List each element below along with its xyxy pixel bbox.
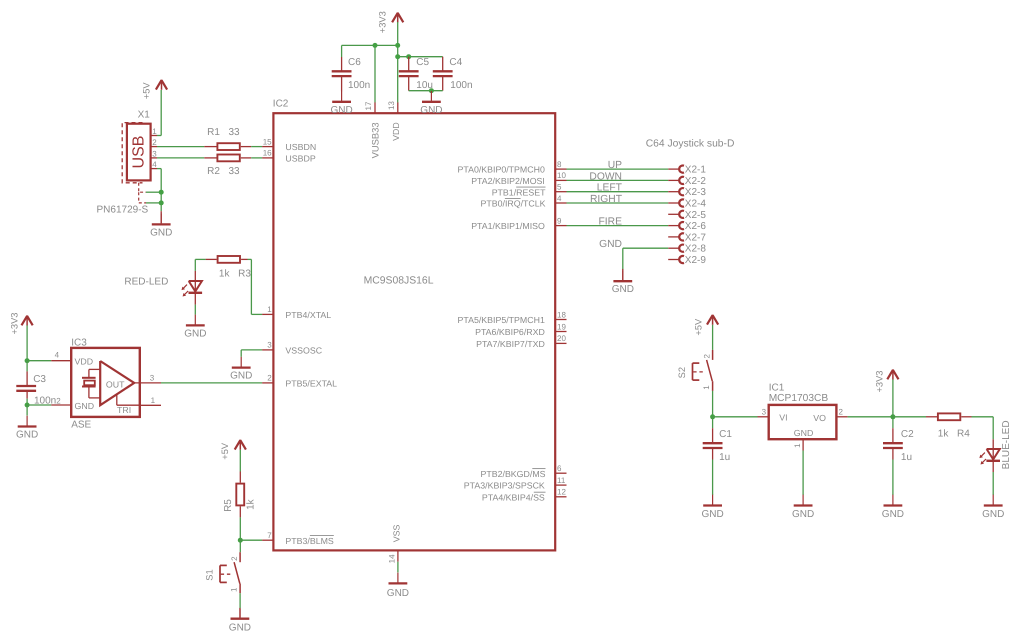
wire X1 pin1 to +5V xyxy=(157,90,161,136)
wire VO to junction xyxy=(848,416,893,418)
svg-text:GND: GND xyxy=(184,328,206,339)
IC2 pin 20 PTA7/KBIP7/TXD stub xyxy=(555,342,566,344)
X1 pin 2 stub xyxy=(151,146,157,148)
supply symbol +3V3 xyxy=(392,13,403,23)
wire VSSOSC to gnd xyxy=(241,350,262,357)
IC2 pin 15 USBDN stub xyxy=(262,146,273,148)
svg-text:GND: GND xyxy=(387,588,409,599)
svg-text:3: 3 xyxy=(267,341,272,350)
svg-text:1k: 1k xyxy=(938,429,950,440)
X2 gnd stub xyxy=(622,269,624,280)
svg-text:MCP1703CB: MCP1703CB xyxy=(769,393,829,404)
capacitor C3 xyxy=(16,386,36,391)
wire LED2 to gnd xyxy=(992,472,994,495)
wire C2 top xyxy=(892,417,894,428)
svg-text:+3V3: +3V3 xyxy=(9,313,19,335)
label pin name PTB1/RESET xyxy=(492,187,546,197)
svg-text:1: 1 xyxy=(793,443,802,448)
svg-text:13: 13 xyxy=(387,101,396,110)
svg-text:USB: USB xyxy=(130,136,147,169)
svg-text:C1: C1 xyxy=(719,429,732,440)
wire X1 pin4 down xyxy=(157,169,161,212)
svg-text:PTB4/XTAL: PTB4/XTAL xyxy=(285,310,331,320)
wire net DOWN xyxy=(567,179,669,181)
svg-text:GND: GND xyxy=(882,509,904,520)
ground xyxy=(184,315,206,340)
connector pin X2-3 xyxy=(668,188,684,195)
svg-text:PTB1/RESET: PTB1/RESET xyxy=(492,187,546,197)
svg-text:100n: 100n xyxy=(450,80,472,91)
svg-text:FIRE: FIRE xyxy=(599,217,623,228)
svg-text:C2: C2 xyxy=(901,429,914,440)
svg-text:1: 1 xyxy=(702,385,711,390)
svg-text:UP: UP xyxy=(608,160,622,171)
svg-text:USBDN: USBDN xyxy=(285,142,316,152)
ground xyxy=(16,416,38,441)
svg-text:+5V: +5V xyxy=(220,442,230,460)
resistor R3 xyxy=(218,256,240,263)
IC2 pin 8 PTA0/KBIP0/TPMCH0 stub xyxy=(555,168,566,170)
R3 right lead xyxy=(241,258,247,260)
svg-text:14: 14 xyxy=(387,554,396,563)
connector pin X2-7 xyxy=(668,233,684,240)
IC3 crystal xyxy=(82,369,100,398)
svg-text:+3V3: +3V3 xyxy=(874,371,884,393)
R1 right lead xyxy=(241,146,251,148)
wire C3 to gnd xyxy=(26,405,28,416)
supply symbol +3V3 xyxy=(22,316,33,326)
label pin name PTA5/KBIP5/TPMCH1 xyxy=(458,315,545,325)
wire C1 top xyxy=(712,417,714,428)
svg-text:VI: VI xyxy=(779,413,787,423)
svg-text:X2-5: X2-5 xyxy=(685,210,707,221)
wire C3 bottom xyxy=(26,399,28,405)
svg-text:R2: R2 xyxy=(207,166,220,177)
wire X1 pin3 to R2 xyxy=(157,157,204,159)
wire IC1 GND to gnd xyxy=(802,451,804,496)
C6 bottom lead xyxy=(341,76,343,91)
svg-text:C3: C3 xyxy=(33,374,46,385)
label R2 values xyxy=(207,166,240,177)
svg-text:1u: 1u xyxy=(901,452,912,463)
IC2 pin 19 PTA6/KBIP6/RXD stub xyxy=(555,331,566,333)
svg-text:USBDP: USBDP xyxy=(285,154,315,164)
svg-text:3: 3 xyxy=(152,149,157,158)
svg-text:100n: 100n xyxy=(348,80,370,91)
svg-text:4: 4 xyxy=(152,160,157,169)
wire S1 to gnd xyxy=(239,593,241,609)
svg-text:VSSOSC: VSSOSC xyxy=(285,346,322,356)
label pin name PTA7/KBIP7/TXD xyxy=(476,339,545,349)
svg-text:PTB2/BKGD/MS: PTB2/BKGD/MS xyxy=(481,469,546,479)
svg-text:X2-2: X2-2 xyxy=(685,176,707,187)
svg-text:1: 1 xyxy=(152,127,157,136)
C4 top lead xyxy=(442,57,444,72)
svg-text:GND: GND xyxy=(792,509,814,520)
label pin name PTB5/EXTAL xyxy=(285,379,337,389)
X1 gnd stub xyxy=(160,211,162,223)
ground xyxy=(702,495,724,520)
svg-text:PTA4/KBIP4/SS: PTA4/KBIP4/SS xyxy=(482,492,545,502)
svg-text:DOWN: DOWN xyxy=(589,171,622,182)
svg-text:33: 33 xyxy=(229,127,241,138)
svg-text:PTA0/KBIP0/TPMCH0: PTA0/KBIP0/TPMCH0 xyxy=(458,165,545,175)
IC3 OUT pin stub xyxy=(134,382,161,384)
wire junction to IC1 VI xyxy=(713,416,758,418)
svg-text:GND: GND xyxy=(16,430,38,441)
IC2 pin 12 PTA4/KBIP4/SS stub xyxy=(555,496,566,498)
svg-text:PTB3/BLMS: PTB3/BLMS xyxy=(285,536,334,546)
svg-text:X2-9: X2-9 xyxy=(685,255,707,266)
svg-text:GND: GND xyxy=(150,227,172,238)
IC2 pin 1 PTB4/XTAL stub xyxy=(262,313,273,315)
svg-text:VO: VO xyxy=(813,413,826,423)
svg-text:3: 3 xyxy=(762,407,767,416)
wire R2 to IC2 pin 16 xyxy=(251,157,262,159)
svg-text:4: 4 xyxy=(55,351,60,360)
junction xyxy=(406,54,411,59)
wire to IC3 VDD xyxy=(27,360,51,362)
C4 bottom lead xyxy=(442,76,444,91)
R5 top lead xyxy=(239,472,241,483)
svg-text:6: 6 xyxy=(557,464,562,473)
wire OUT to IC2 PTB5/EXTAL xyxy=(161,382,262,384)
svg-text:8: 8 xyxy=(557,160,562,169)
wire pin13 drop xyxy=(397,45,399,102)
svg-text:GND: GND xyxy=(794,428,814,438)
capacitor C4 xyxy=(433,71,453,76)
IC1 VI pin stub xyxy=(758,416,769,418)
C1 bottom lead xyxy=(712,448,714,460)
C1 top lead xyxy=(712,428,714,443)
IC3 TRI pin stub xyxy=(140,404,161,406)
svg-text:X2-7: X2-7 xyxy=(685,232,707,243)
svg-text:2: 2 xyxy=(267,374,272,383)
X1 shield pin S1 dashed xyxy=(139,183,146,192)
svg-text:MC9S08JS16L: MC9S08JS16L xyxy=(364,276,434,287)
junction xyxy=(395,43,400,48)
label pin name PTB4/XTAL xyxy=(285,310,331,320)
junction xyxy=(159,200,164,205)
wire net UP xyxy=(567,168,669,170)
IC1 GND pin stub xyxy=(802,439,804,450)
label pin name USBDP xyxy=(285,154,315,164)
svg-text:C6: C6 xyxy=(348,57,361,68)
switch S2 lever xyxy=(707,360,713,381)
svg-text:19: 19 xyxy=(557,322,566,331)
wire branch to C5/C4 xyxy=(398,56,443,58)
svg-text:11: 11 xyxy=(557,476,566,485)
wire R3 to corner xyxy=(248,259,263,314)
resistor R5 xyxy=(236,484,244,506)
IC2 pin 7 PTB3/BLMS stub xyxy=(262,539,273,541)
svg-text:C64 Joystick sub-D: C64 Joystick sub-D xyxy=(646,138,735,149)
connector pin X2-4 xyxy=(668,199,684,206)
IC2 pin 17 VUSB33 stub xyxy=(374,102,376,113)
IC2 pin 16 USBDP stub xyxy=(262,157,273,159)
capacitor C5 xyxy=(399,71,419,76)
svg-text:PTB0/IRQ/TCLK: PTB0/IRQ/TCLK xyxy=(481,199,546,209)
resistor R2 xyxy=(217,155,239,162)
supply symbol +5V xyxy=(707,315,718,325)
svg-text:1: 1 xyxy=(230,587,239,592)
svg-text:5: 5 xyxy=(557,183,562,192)
svg-text:PTA6/KBIP6/RXD: PTA6/KBIP6/RXD xyxy=(475,327,545,337)
svg-text:X2-8: X2-8 xyxy=(685,244,707,255)
svg-text:VUSB33: VUSB33 xyxy=(370,122,381,158)
svg-text:3: 3 xyxy=(150,374,155,383)
IC IC3 oscillator body xyxy=(71,348,140,417)
svg-text:VDD: VDD xyxy=(391,122,401,141)
svg-text:18: 18 xyxy=(557,310,566,319)
switch S1 lever xyxy=(234,562,240,583)
svg-text:16: 16 xyxy=(263,149,272,158)
svg-text:1u: 1u xyxy=(719,452,730,463)
ground xyxy=(150,214,172,239)
svg-text:VSS: VSS xyxy=(392,524,402,542)
switch S1 pin 2 stub xyxy=(239,552,241,562)
resistor R4 xyxy=(938,413,960,420)
IC2 pin 10 PTA2/KBIP2/MOSI stub xyxy=(555,179,566,181)
capacitor C1 xyxy=(703,443,723,448)
ground xyxy=(612,270,634,295)
R3 left lead xyxy=(206,258,217,260)
capacitor C2 xyxy=(883,443,903,448)
ground xyxy=(882,495,904,520)
wire net RIGHT xyxy=(567,202,669,204)
connector pin X2-8 xyxy=(668,245,684,252)
LED2 anode lead xyxy=(992,439,994,449)
IC3 TRI internal xyxy=(117,394,140,405)
IC2 pin 4 PTB0/IRQ/TCLK stub xyxy=(555,202,566,204)
wire S2 to junction xyxy=(712,391,714,417)
IC2 pin 3 VSSOSC stub xyxy=(262,349,273,351)
svg-text:GND: GND xyxy=(230,371,252,382)
switch S1 pin 1 stub xyxy=(239,584,241,594)
X1 pin 1 stub xyxy=(151,135,157,137)
wire +3V3 to junction xyxy=(892,380,894,417)
svg-text:C4: C4 xyxy=(449,57,462,68)
switch S2 pin 2 stub xyxy=(712,350,714,360)
LED2 cathode lead xyxy=(992,461,994,472)
svg-text:PN61729-S: PN61729-S xyxy=(97,204,149,215)
svg-text:7: 7 xyxy=(267,531,272,540)
label pin name PTB0/IRQ/TCLK xyxy=(481,198,546,208)
C3 top lead xyxy=(26,371,28,386)
svg-text:PTA7/KBIP7/TXD: PTA7/KBIP7/TXD xyxy=(476,339,545,349)
junction xyxy=(429,88,434,93)
supply symbol +3V3 xyxy=(887,370,898,380)
wire shield S1 to net xyxy=(146,191,161,193)
connector X1 shield dashed outline xyxy=(122,123,142,183)
ground xyxy=(420,91,442,116)
svg-text:PTA2/KBIP2/MOSI: PTA2/KBIP2/MOSI xyxy=(471,176,545,186)
svg-text:20: 20 xyxy=(557,334,566,343)
svg-text:17: 17 xyxy=(364,101,373,110)
junction xyxy=(890,414,895,419)
ground xyxy=(387,573,409,599)
IC2 pin 11 PTA3/KBIP3/SPSCK stub xyxy=(555,484,566,486)
ground xyxy=(230,357,252,382)
svg-text:GND: GND xyxy=(331,105,353,116)
S1 gnd stub xyxy=(239,609,241,618)
switch S2 pin 1 stub xyxy=(712,381,714,391)
IC2 pin 13 VDD stub xyxy=(397,102,399,113)
wire C2 to gnd xyxy=(892,460,894,496)
wire pin17 drop xyxy=(374,45,376,102)
C5 top lead xyxy=(408,57,410,72)
svg-text:PTA3/KBIP3/SPSCK: PTA3/KBIP3/SPSCK xyxy=(464,481,545,491)
label R1 values xyxy=(207,127,240,138)
svg-text:S1: S1 xyxy=(204,569,214,580)
wire X1 pin2 to R1 xyxy=(157,146,204,148)
wire X2-8 GND net xyxy=(623,248,668,270)
label pin name PTA1/KBIP1/MISO xyxy=(471,221,545,231)
capacitor C6 xyxy=(332,71,352,76)
C6 top lead xyxy=(341,57,343,71)
IC IC2 MC9S08JS16L body xyxy=(273,113,555,550)
label pin name PTB3/BLMS xyxy=(285,536,334,546)
junction xyxy=(373,43,378,48)
svg-text:C5: C5 xyxy=(416,57,429,68)
label pin name PTA2/KBIP2/MOSI xyxy=(471,176,545,186)
junction xyxy=(25,403,30,408)
junction xyxy=(395,54,400,59)
svg-text:GND: GND xyxy=(75,401,95,411)
svg-text:2: 2 xyxy=(56,397,61,406)
svg-text:+3V3: +3V3 xyxy=(378,11,388,33)
IC IC1 MCP1703CB body xyxy=(769,405,837,439)
label pin name VSSOSC xyxy=(285,346,322,356)
svg-text:X2-6: X2-6 xyxy=(685,221,707,232)
label R3 values xyxy=(219,268,251,279)
wire to IC3 GND xyxy=(27,404,51,406)
IC2 pin 14 VSS stub xyxy=(397,550,399,561)
svg-text:GND: GND xyxy=(229,623,251,634)
wire C1 to gnd xyxy=(712,460,714,496)
label S2 pin numbers xyxy=(702,354,711,390)
ground xyxy=(982,495,1004,520)
svg-text:1k: 1k xyxy=(246,498,257,510)
wire R4 to LED corner xyxy=(972,417,994,440)
IC1 VO pin stub xyxy=(836,416,847,418)
supply symbol +5V xyxy=(156,80,167,90)
connector X1 USB body xyxy=(127,124,151,181)
svg-text:X1: X1 xyxy=(138,110,151,121)
svg-text:2: 2 xyxy=(230,556,239,561)
svg-text:PTA1/KBIP1/MISO: PTA1/KBIP1/MISO xyxy=(471,221,545,231)
junction xyxy=(238,538,243,543)
svg-text:RIGHT: RIGHT xyxy=(590,194,623,205)
wire junction to R4 xyxy=(893,416,926,418)
svg-text:R1: R1 xyxy=(207,127,220,138)
label pin name PTA4/KBIP4/SS xyxy=(482,492,546,502)
IC2 pin 2 PTB5/EXTAL stub xyxy=(262,382,273,384)
svg-text:IC2: IC2 xyxy=(273,98,289,109)
LED1 cathode lead xyxy=(194,293,196,305)
C2 bottom lead xyxy=(892,448,894,460)
IC2 pin 9 PTA1/KBIP1/MISO stub xyxy=(555,225,566,227)
resistor R1 xyxy=(217,143,239,150)
svg-text:GND: GND xyxy=(599,239,622,250)
wire junction to IC2 pin7 xyxy=(240,539,262,541)
wire net LEFT xyxy=(567,191,669,193)
svg-text:GND: GND xyxy=(702,509,724,520)
wire net FIRE xyxy=(567,225,669,227)
C2 top lead xyxy=(892,428,894,443)
wire +5V to R5 xyxy=(239,450,241,472)
label pin name PTB2/BKGD/MS xyxy=(481,469,546,479)
IC2 pin 5 PTB1/RESET stub xyxy=(555,191,566,193)
svg-text:BLUE-LED: BLUE-LED xyxy=(1001,420,1012,469)
wire C6 top xyxy=(341,45,343,57)
label R4 values xyxy=(938,429,970,440)
wire C5-C4 bottom xyxy=(409,90,443,92)
svg-text:PTB5/EXTAL: PTB5/EXTAL xyxy=(285,379,337,389)
wire VSS to gnd xyxy=(397,562,399,573)
svg-text:15: 15 xyxy=(263,137,272,146)
svg-text:1k: 1k xyxy=(219,268,231,279)
wire junction to S1 xyxy=(239,540,241,552)
wire R3 to LED xyxy=(195,259,205,271)
junction xyxy=(710,414,715,419)
svg-text:RED-LED: RED-LED xyxy=(124,276,168,287)
LED BLUE-LED xyxy=(979,449,1000,465)
R2 left lead xyxy=(204,157,216,159)
svg-text:PTA5/KBIP5/TPMCH1: PTA5/KBIP5/TPMCH1 xyxy=(458,315,545,325)
svg-text:9: 9 xyxy=(557,216,562,225)
svg-text:GND: GND xyxy=(612,284,634,295)
svg-text:12: 12 xyxy=(557,488,566,497)
switch S2 actuator bracket xyxy=(693,363,706,380)
wire shield S2 to net xyxy=(146,202,161,204)
wire C3 top xyxy=(26,361,28,372)
junction xyxy=(25,358,30,363)
svg-text:OUT: OUT xyxy=(106,380,125,390)
svg-text:+5V: +5V xyxy=(693,318,703,336)
connector pin X2-9 xyxy=(668,256,684,263)
ground xyxy=(792,495,814,520)
svg-text:2: 2 xyxy=(839,407,844,416)
R2 right lead xyxy=(241,157,251,159)
C5 bottom lead xyxy=(408,76,410,91)
junction xyxy=(159,190,164,195)
svg-text:VDD: VDD xyxy=(75,356,94,366)
wire R1 to IC2 pin 15 xyxy=(251,146,262,148)
label pin name PTA3/KBIP3/SPSCK xyxy=(464,481,545,491)
svg-text:4: 4 xyxy=(557,194,562,203)
svg-text:R5: R5 xyxy=(223,499,234,512)
X1 pin 3 stub xyxy=(151,157,157,159)
svg-text:IC3: IC3 xyxy=(71,338,87,349)
wire R5 to junction xyxy=(239,517,241,540)
supply symbol +5V xyxy=(235,440,246,450)
svg-text:X2-1: X2-1 xyxy=(685,165,707,176)
svg-text:GND: GND xyxy=(420,105,442,116)
svg-text:33: 33 xyxy=(229,166,241,177)
svg-text:GND: GND xyxy=(982,509,1004,520)
svg-text:1: 1 xyxy=(267,305,272,314)
svg-text:TRI: TRI xyxy=(117,405,131,415)
switch S1 actuator bracket xyxy=(220,565,233,582)
IC3 VDD pin stub xyxy=(51,360,71,362)
svg-text:R4: R4 xyxy=(957,429,970,440)
connector pin X2-2 xyxy=(668,177,684,184)
connector pin X2-5 xyxy=(668,211,684,218)
svg-text:IC1: IC1 xyxy=(769,382,785,393)
svg-text:1: 1 xyxy=(151,396,156,405)
ground xyxy=(331,91,353,116)
